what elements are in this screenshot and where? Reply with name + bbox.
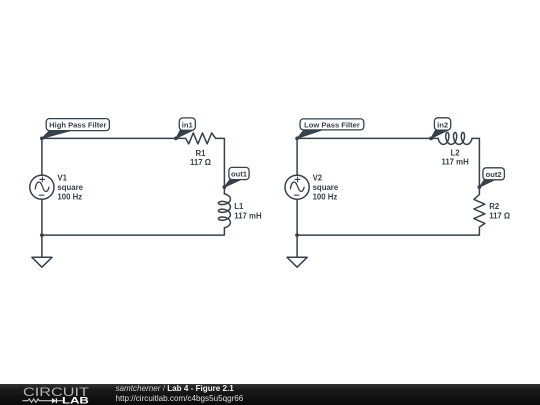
voltage source V1 minus sign — [39, 194, 44, 196]
svg-text:R1: R1 — [196, 149, 207, 158]
node out2 anchor — [478, 185, 482, 189]
svg-text:117 Ω: 117 Ω — [489, 212, 510, 221]
svg-text:out1: out1 — [231, 169, 248, 178]
wire left rail top V2 — [296, 138, 298, 175]
node bottom-left junction right circuit — [295, 233, 299, 237]
wire left rail top (V1 to top-left corner) — [41, 138, 43, 175]
wire left rail bottom V2 — [296, 199, 298, 235]
flag in2 — [431, 118, 451, 139]
svg-text:Low Pass Filter: Low Pass Filter — [304, 120, 360, 129]
node top-left junction left circuit — [40, 137, 44, 141]
node top-left junction right circuit — [295, 137, 299, 141]
ground symbol right circuit — [287, 235, 307, 267]
svg-text:in1: in1 — [182, 121, 194, 130]
footer logo resistor-diode squiggle — [23, 398, 63, 403]
svg-text:LAB: LAB — [62, 395, 89, 405]
svg-text:square: square — [57, 183, 83, 192]
svg-text:out2: out2 — [486, 170, 502, 179]
voltage source V2 circle — [285, 175, 309, 199]
svg-text:L2: L2 — [451, 149, 461, 158]
inductor L2 coil — [438, 132, 472, 144]
node out1 anchor — [223, 185, 227, 189]
voltage source V2 sine glyph — [291, 182, 305, 192]
flag out2 — [479, 168, 504, 187]
flag Low Pass Filter — [297, 119, 364, 138]
svg-text:in2: in2 — [437, 121, 448, 130]
svg-text:117 Ω: 117 Ω — [190, 158, 211, 167]
svg-text:V1: V1 — [57, 173, 67, 182]
flag in1 — [176, 118, 195, 138]
node in1 anchor — [174, 137, 178, 141]
wire top rail right circuit — [297, 137, 438, 139]
svg-text:117 mH: 117 mH — [234, 212, 262, 221]
wire L1 bottom to bottom-right corner to bottom rail — [42, 228, 225, 235]
svg-text:square: square — [313, 183, 339, 192]
resistor R2 zigzag — [474, 195, 485, 228]
wire left rail bottom (V1 to bottom-left corner) — [41, 199, 43, 235]
ground symbol left circuit — [32, 235, 52, 267]
footer bar — [0, 384, 540, 405]
voltage source V1 sine glyph — [35, 182, 49, 192]
footer logo diode triangle — [52, 398, 56, 403]
inductor L1 coil — [218, 194, 230, 228]
svg-text:High Pass Filter: High Pass Filter — [49, 121, 106, 130]
node in2 anchor — [429, 137, 433, 141]
wire R2 bottom to bottom-right corner to bottom rail — [297, 227, 479, 235]
svg-text:http://circuitlab.com/c4bgs5u5: http://circuitlab.com/c4bgs5u5qgr66 — [116, 394, 244, 403]
resistor R1 zigzag — [186, 133, 216, 144]
node bottom-left junction left circuit — [40, 233, 44, 237]
wire top rail left circuit — [42, 137, 186, 139]
svg-text:samtcherner / Lab 4 - Figure 2: samtcherner / Lab 4 - Figure 2.1 — [116, 384, 235, 393]
svg-text:L1: L1 — [234, 202, 244, 211]
voltage source V2 minus sign — [294, 194, 299, 196]
voltage source V1 plus sign — [40, 177, 45, 182]
svg-text:100 Hz: 100 Hz — [57, 192, 82, 201]
svg-text:V2: V2 — [313, 173, 323, 182]
flag High Pass Filter — [42, 119, 110, 139]
flag out1 — [224, 167, 249, 187]
voltage source V2 plus sign — [295, 177, 300, 182]
svg-text:100 Hz: 100 Hz — [313, 192, 338, 201]
svg-text:R2: R2 — [489, 202, 500, 211]
svg-text:117 mH: 117 mH — [441, 158, 469, 167]
wire L2 to top-right corner and down to out2 node — [472, 138, 479, 194]
voltage source V1 circle — [30, 175, 54, 199]
wire R1 to top-right corner and down to out1 node — [216, 138, 225, 194]
